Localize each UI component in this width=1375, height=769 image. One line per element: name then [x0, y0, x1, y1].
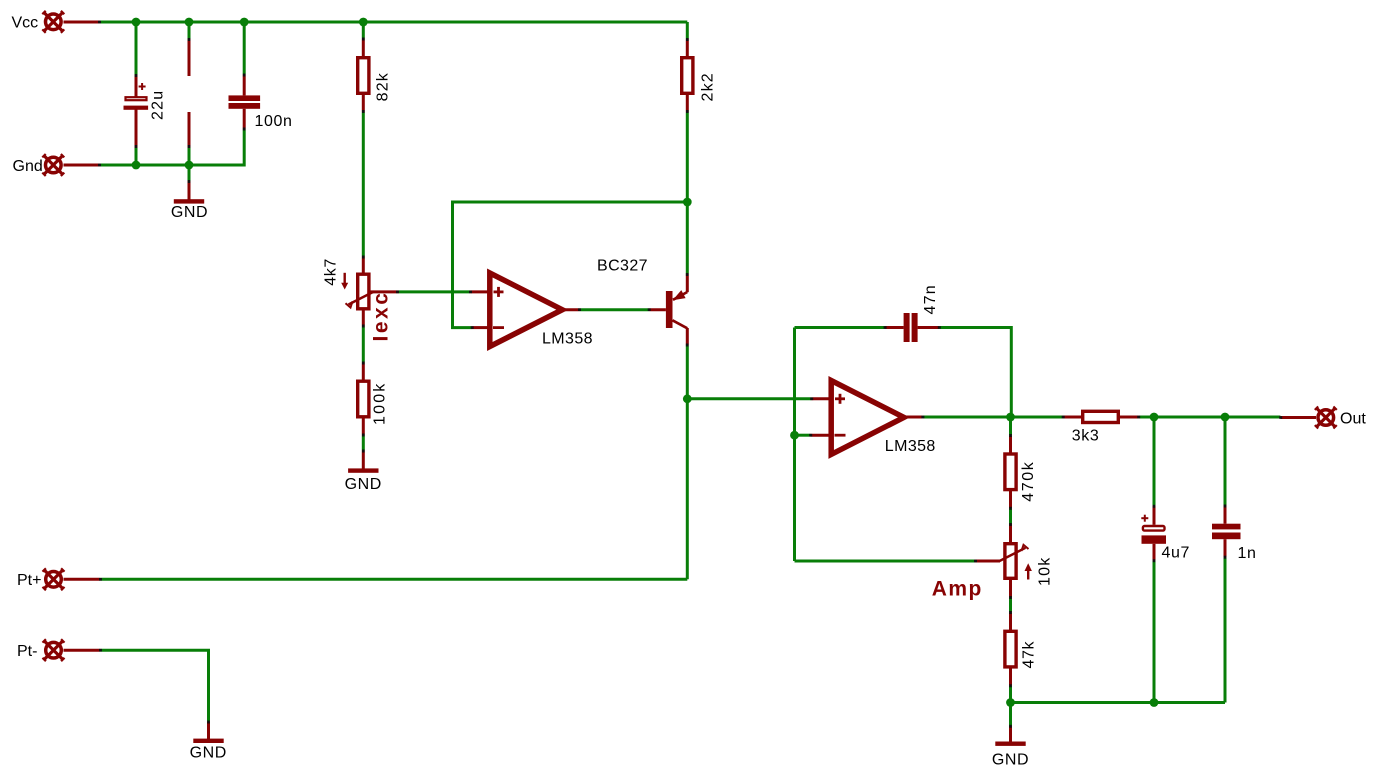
pin capacitor 1n bottom [1224, 539, 1227, 557]
potentiometer 10k [1000, 544, 1032, 580]
pin trimmer 4k7 bottom [362, 311, 365, 327]
junction output node [1006, 413, 1015, 422]
svg-text:GND: GND [345, 476, 382, 493]
resistor 82k [358, 58, 369, 94]
svg-text:3k3: 3k3 [1072, 428, 1100, 445]
pin ground GND3 [207, 722, 210, 739]
junction node 2k2/feedback [683, 198, 692, 207]
wire Pt- to GND [100, 650, 208, 722]
junction bottom rail/GND4 [1006, 698, 1015, 707]
wire U1 output to Q1 base [580, 308, 650, 311]
terminal Pt- [43, 639, 65, 661]
wire Vcc to 82k top [362, 22, 365, 39]
wire bottom rail to GND [1009, 703, 1012, 727]
pin resistor 47k bottom [1009, 668, 1012, 686]
junction Vcc/100n [240, 18, 249, 27]
svg-text:47k: 47k [1021, 641, 1038, 669]
op-amp U2 [831, 381, 904, 455]
wire out node to 1n [1224, 417, 1227, 506]
svg-text:GND: GND [171, 204, 208, 221]
wire Vcc top rail [100, 21, 687, 24]
wire output node to 470k [1009, 417, 1012, 435]
wire to 10k wiper [795, 560, 976, 563]
pin terminal Gnd [64, 164, 101, 167]
pin resistor 2k2 bottom [686, 95, 689, 112]
svg-text:47n: 47n [922, 284, 939, 314]
pin capacitor 47n right [918, 326, 940, 329]
junction Out/4u7 [1150, 413, 1159, 422]
svg-text:100k: 100k [372, 382, 389, 426]
capacitor 22u polarized [124, 83, 149, 110]
svg-text:1n: 1n [1238, 545, 1257, 562]
pin potentiometer 10k top [1009, 524, 1012, 542]
svg-text:2k2: 2k2 [700, 72, 717, 101]
capacitor 1n [1212, 524, 1241, 540]
pin capacitor 22u top [135, 75, 138, 97]
pin IC1 power GND [188, 112, 191, 148]
svg-text:82k: 82k [375, 72, 392, 101]
junction node collector/Pt+ [683, 394, 692, 403]
wire Vcc to 100n top [243, 22, 246, 75]
pin ground GND2 [362, 451, 365, 469]
pin op-amp U2 minus [811, 434, 830, 437]
wire Vcc to 22u top [135, 22, 138, 75]
wire Q1 collector down [686, 345, 689, 399]
terminal Out [1315, 407, 1337, 429]
wire feedback U1 top [453, 202, 688, 328]
pin op-amp U1 minus [472, 326, 488, 329]
pin resistor 82k top [362, 39, 365, 57]
pin terminal Out [1280, 416, 1316, 419]
wire 22u bottom to Gnd rail [135, 148, 138, 166]
wire collector node to Pt+ [686, 399, 689, 580]
SECTION: wires [100, 22, 1280, 726]
wire 82k bottom to trimmer 4k7 [362, 112, 365, 257]
trimmer 4k7 [341, 273, 374, 309]
junction Gnd/22u [132, 161, 141, 170]
pin capacitor 47n left [885, 326, 904, 329]
pin capacitor 4u7 top [1153, 506, 1156, 525]
wire 47k to bottom rail [1009, 686, 1012, 703]
pin resistor 3k3 left [1063, 416, 1081, 419]
svg-text:Iexc: Iexc [370, 291, 393, 342]
wire trimmer bottom to 100k top [362, 327, 365, 363]
pin transistor Q1 base [649, 308, 666, 311]
pin resistor 470k bottom [1009, 490, 1012, 508]
svg-text:GND: GND [992, 752, 1029, 769]
capacitor 47n [904, 313, 918, 342]
SECTION: junctions [132, 18, 1230, 707]
pin trimmer 4k7 wiper [371, 290, 399, 293]
pin potentiometer 10k wiper [975, 560, 1000, 563]
pin ground GND1 [188, 181, 191, 200]
wire IC gnd pin to rail [188, 148, 191, 166]
ground GND1 [174, 199, 204, 203]
wire node to U2 plus input [687, 397, 811, 400]
ground GND2 [348, 468, 378, 472]
pin resistor 100k top [362, 363, 365, 381]
resistor 47k [1005, 631, 1016, 667]
svg-text:Pt+: Pt+ [17, 572, 41, 589]
pin resistor 100k bottom [362, 418, 365, 436]
wire 1n bottom to rail [1224, 557, 1227, 702]
svg-text:Pt-: Pt- [17, 643, 37, 660]
junction Out/1n [1221, 413, 1230, 422]
pin terminal Pt+ [64, 578, 101, 581]
transistor Q1 BC327 [666, 274, 687, 345]
svg-text:BC327: BC327 [597, 258, 648, 275]
wire 4u7 bottom to rail [1153, 561, 1156, 703]
pin resistor 470k top [1009, 435, 1012, 453]
svg-text:LM358: LM358 [542, 331, 593, 348]
svg-text:Out: Out [1340, 410, 1366, 427]
SECTION: marks [98, 21, 1282, 728]
svg-text:4u7: 4u7 [1162, 544, 1191, 561]
svg-text:LM358: LM358 [885, 438, 936, 455]
ground GND4 [995, 742, 1025, 746]
wire trimmer wiper to op-amp U1 plus input [398, 290, 470, 293]
capacitor 100n [229, 95, 261, 108]
pin IC1 power V+ [188, 39, 191, 76]
wire bottom rail [1011, 701, 1226, 704]
wire 47n right to output node [939, 328, 1011, 418]
junction U2 minus loop [790, 431, 799, 440]
resistor 2k2 [682, 58, 693, 94]
junction Vcc/22u [132, 18, 141, 27]
wire U2 output to 3k3 [923, 416, 1063, 419]
pin resistor 82k bottom [362, 95, 365, 112]
pin op-amp U1 output [563, 308, 580, 311]
wire Gnd rail [100, 130, 244, 166]
pin terminal Vcc [64, 21, 101, 24]
capacitor 4u7 polarized [1141, 515, 1166, 544]
svg-text:470k: 470k [1020, 461, 1037, 502]
wire 3k3 to Out [1139, 416, 1281, 419]
resistor 100k [358, 381, 369, 417]
wire node to Q1 emitter [686, 202, 689, 274]
svg-text:10k: 10k [1037, 557, 1054, 586]
terminal Gnd [42, 154, 64, 176]
pin op-amp U1 plus [470, 290, 487, 293]
ground GND3 [193, 739, 223, 743]
pin ground GND4 [1009, 726, 1012, 742]
wire U2 minus input [795, 434, 811, 437]
svg-text:Gnd: Gnd [13, 158, 43, 175]
pin terminal Pt- [64, 649, 101, 652]
terminal Vcc [42, 11, 64, 33]
junction Vcc/82k [359, 18, 368, 27]
pin capacitor 100n bottom [243, 109, 246, 130]
pin capacitor 100n top [243, 75, 246, 96]
svg-text:100n: 100n [255, 113, 293, 130]
pin op-amp U2 output [905, 416, 923, 419]
wire feedback U2 left drop [793, 328, 796, 562]
wire 10k to 47k [1009, 598, 1012, 613]
wire Pt+ run [100, 578, 687, 581]
wire 2k2 bottom to node [686, 112, 689, 202]
op-amp U1 [490, 273, 563, 347]
svg-text:Amp: Amp [932, 578, 983, 601]
resistor 470k [1005, 454, 1016, 490]
pin op-amp U2 plus [812, 397, 830, 400]
wire out node to 4u7 [1153, 417, 1156, 506]
wire 100k bottom to GND [362, 436, 365, 451]
svg-text:Vcc: Vcc [12, 15, 39, 32]
svg-text:GND: GND [190, 745, 227, 762]
svg-text:22u: 22u [150, 90, 167, 120]
pin resistor 2k2 top [686, 39, 689, 56]
pin capacitor 4u7 bottom [1153, 544, 1156, 561]
wire Vcc to IC power pin [188, 22, 191, 39]
wire 470k to 10k [1009, 508, 1012, 524]
svg-text:4k7: 4k7 [322, 258, 339, 286]
wire Gnd rail to GND symbol [188, 165, 191, 181]
pin trimmer 4k7 top [362, 257, 365, 273]
terminal Pt+ [43, 568, 65, 590]
pin resistor 3k3 right [1119, 416, 1139, 419]
junction Gnd/GND1 [185, 161, 194, 170]
pin capacitor 1n top [1224, 506, 1227, 524]
pin potentiometer 10k bottom [1009, 580, 1012, 598]
resistor 3k3 horizontal [1083, 411, 1119, 422]
pin resistor 47k top [1009, 612, 1012, 630]
wire feedback U2 top left [795, 326, 885, 329]
pin capacitor 22u bottom [135, 110, 138, 148]
junction bottom rail/4u7 [1150, 698, 1159, 707]
wire 2k2 top drop [686, 22, 689, 39]
junction Vcc/IC1 [185, 18, 194, 27]
